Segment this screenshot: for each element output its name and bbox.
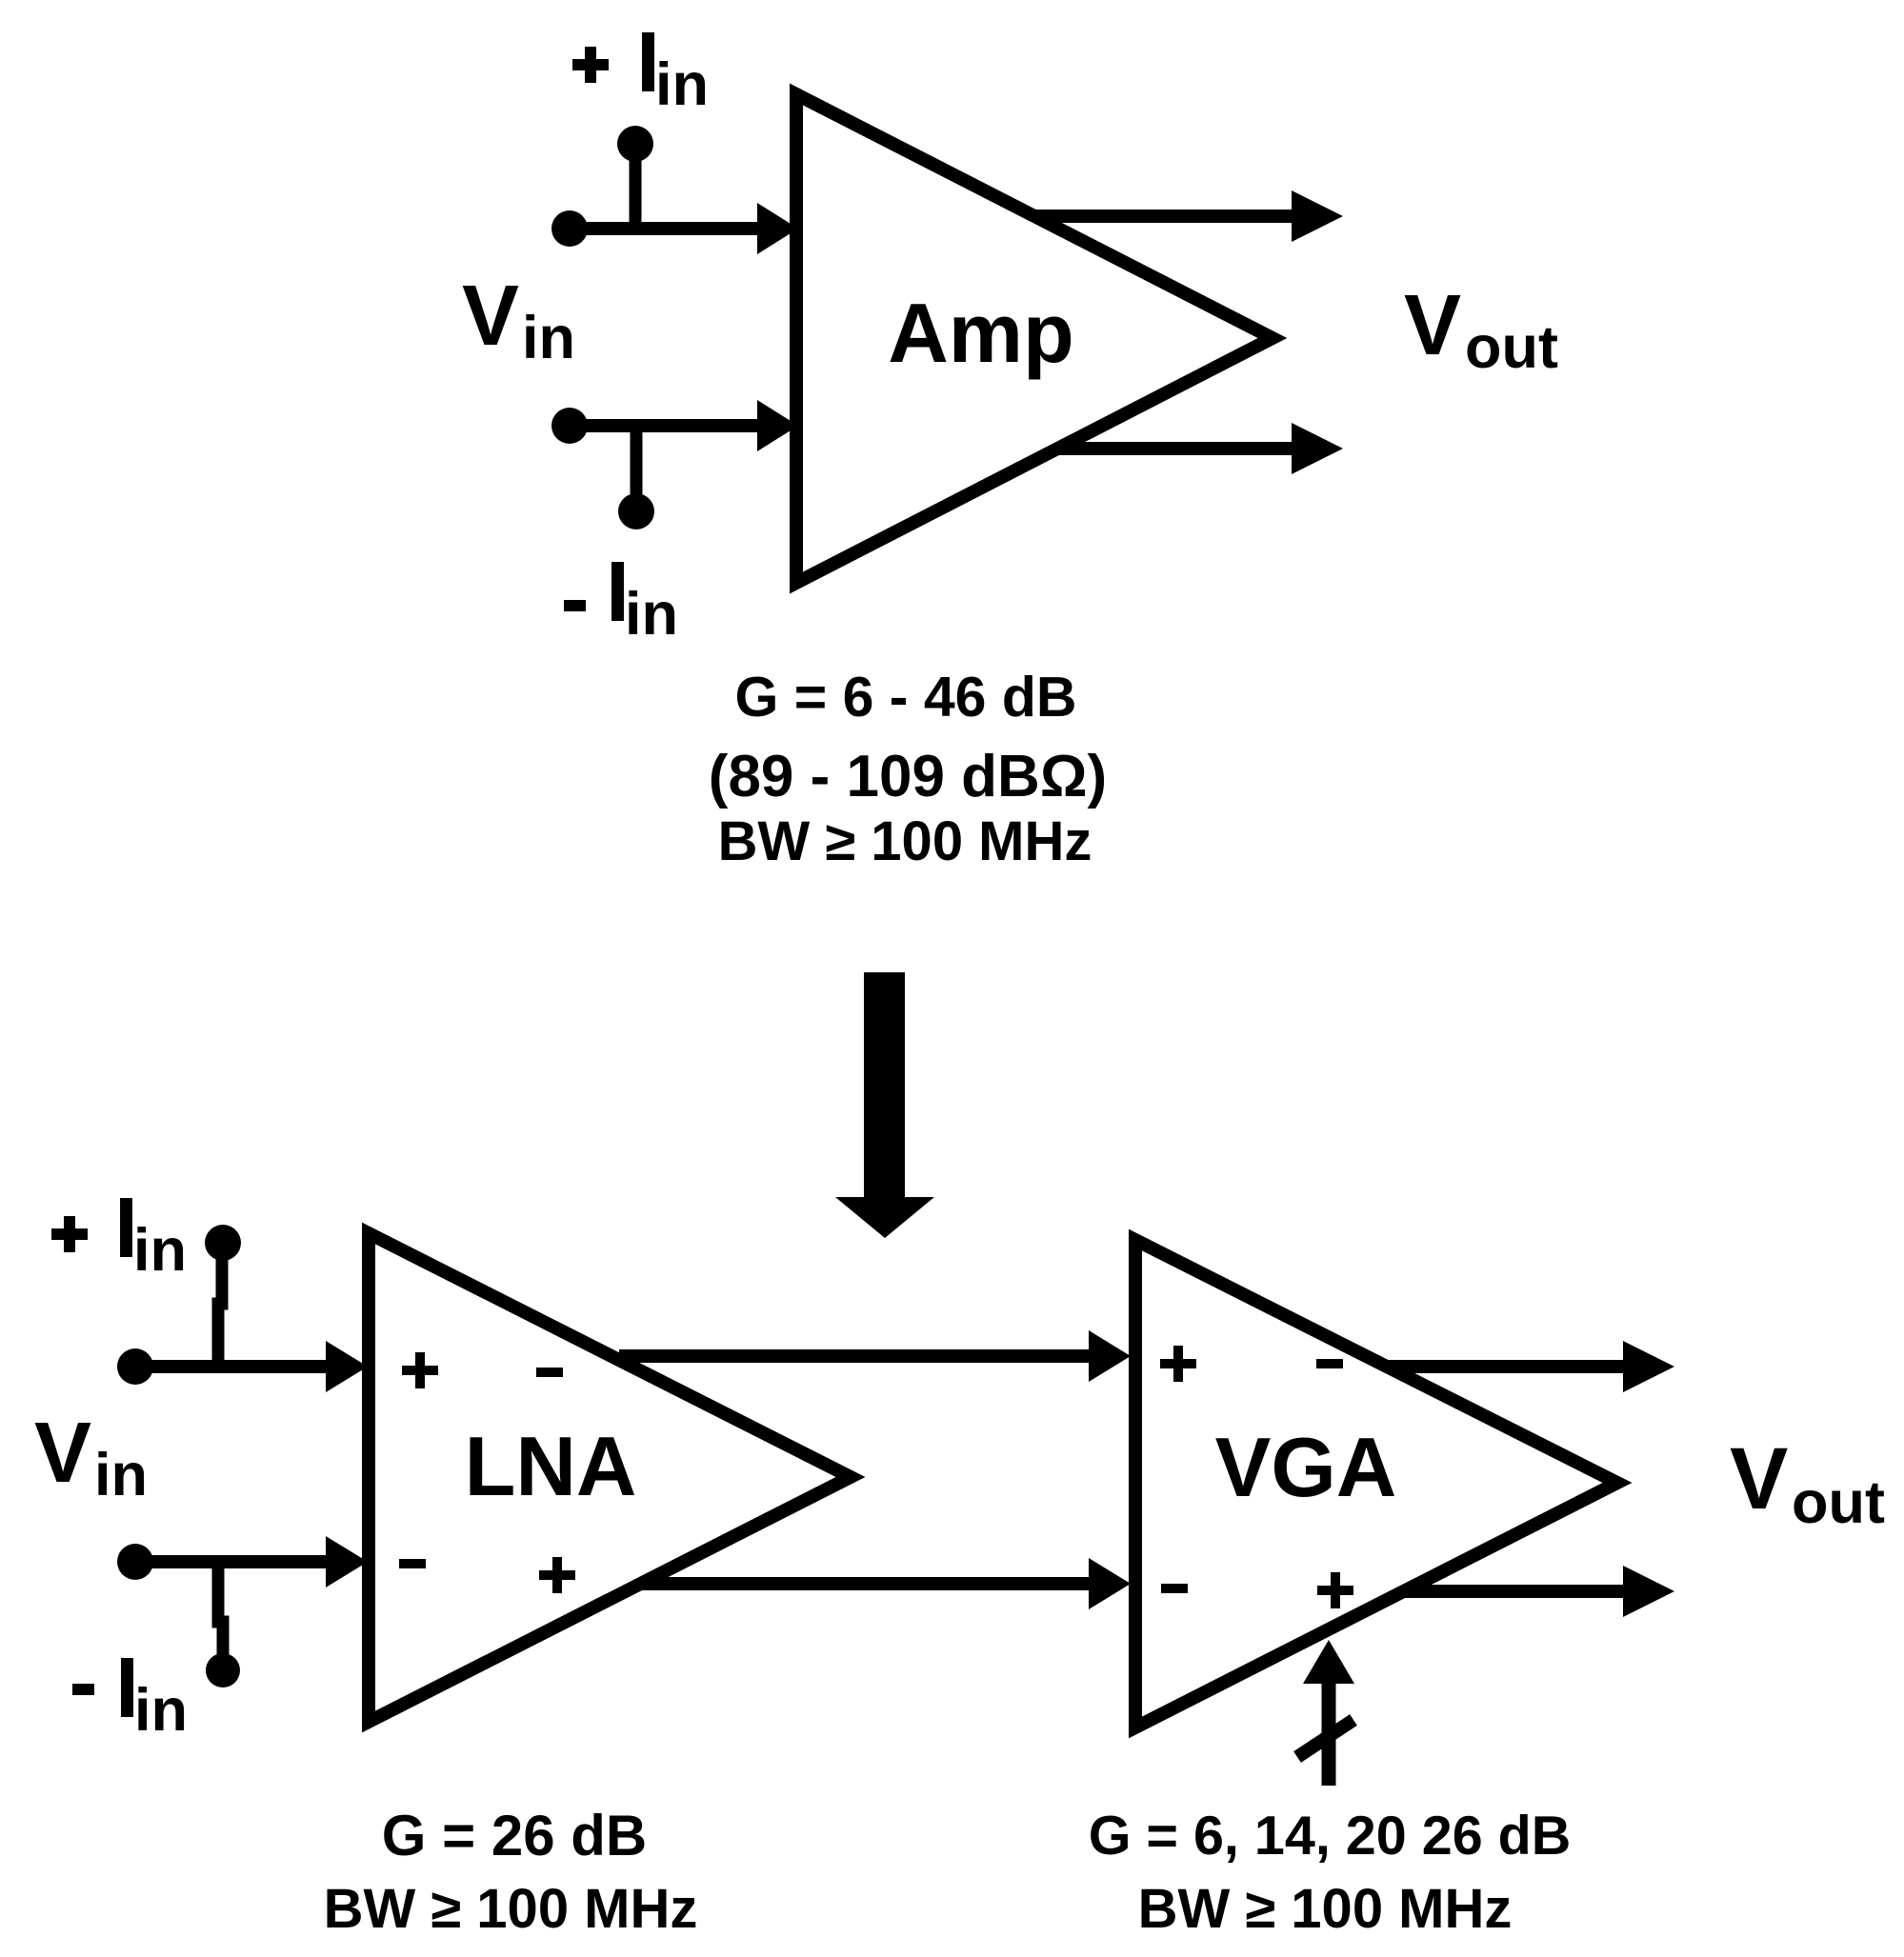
svg-text:(89 - 109 dBΩ): (89 - 109 dBΩ) bbox=[709, 744, 1107, 809]
svg-text:in: in bbox=[655, 51, 709, 118]
svg-text:V: V bbox=[462, 269, 519, 364]
svg-text:G = 6 - 46 dB: G = 6 - 46 dB bbox=[734, 666, 1076, 729]
svg-text:BW ≥ 100 MHz: BW ≥ 100 MHz bbox=[324, 1878, 698, 1940]
svg-text:in: in bbox=[625, 581, 678, 648]
svg-text:Amp: Amp bbox=[888, 286, 1074, 380]
svg-text:V: V bbox=[1730, 1430, 1788, 1528]
svg-text:out: out bbox=[1465, 314, 1558, 381]
svg-text:in: in bbox=[133, 1217, 187, 1284]
svg-text:in: in bbox=[134, 1677, 188, 1744]
svg-text:V: V bbox=[34, 1406, 91, 1501]
svg-text:VGA: VGA bbox=[1215, 1420, 1397, 1514]
svg-text:in: in bbox=[522, 305, 575, 371]
svg-text:V: V bbox=[1404, 278, 1461, 373]
svg-text:out: out bbox=[1792, 1469, 1885, 1536]
svg-text:BW ≥ 100 MHz: BW ≥ 100 MHz bbox=[718, 810, 1092, 872]
svg-text:in: in bbox=[94, 1442, 148, 1508]
svg-text:G = 26 dB: G = 26 dB bbox=[382, 1804, 647, 1867]
svg-text:G = 6, 14, 20 26 dB: G = 6, 14, 20 26 dB bbox=[1089, 1806, 1572, 1867]
svg-text:BW ≥ 100 MHz: BW ≥ 100 MHz bbox=[1138, 1878, 1513, 1940]
svg-text:LNA: LNA bbox=[465, 1419, 637, 1513]
